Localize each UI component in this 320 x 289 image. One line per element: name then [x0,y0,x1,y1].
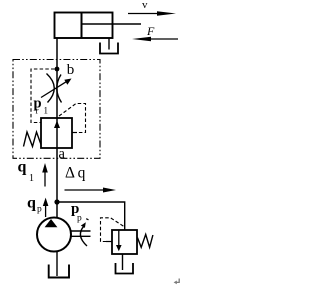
flow arrow q1 [42,163,48,187]
main supply line upper [56,38,58,119]
stray mark [86,219,88,220]
relief valve square [112,230,137,254]
main line lower [56,118,58,218]
pump rotation arrow [80,226,87,246]
relief internal arrow [116,230,122,251]
svg-text:q: q [27,195,36,212]
cylinder piston [81,13,83,39]
compensator valve square a [41,118,72,148]
svg-text:q: q [18,159,27,176]
svg-text:r: r [36,106,39,116]
flow arrow delta q [65,188,117,193]
right pilot line dashed [59,104,86,133]
throttle b arcs [47,74,55,103]
pump shaft [71,230,91,232]
cylinder body [55,13,113,39]
enclosure dash-dot box [13,60,100,159]
cylinder piston rod [82,23,141,25]
svg-text:F: F [146,24,155,38]
force arrow F [132,37,178,42]
relief outlet [122,254,124,270]
pump [37,218,71,252]
spring of valve a [24,132,42,147]
svg-text:p: p [77,214,82,224]
flow arrow qp [43,198,49,217]
pump flow triangle [45,219,58,227]
relief spring [137,234,153,247]
junction node [55,67,60,72]
cylinder drain line [108,38,110,50]
svg-text:v: v [142,0,148,11]
pilot stub on relief valve left side [106,241,112,243]
svg-text:p: p [37,205,42,215]
left pilot line dashed [31,69,55,123]
valve a flow arrow [54,121,60,129]
pilot stub on valve a right side [72,132,77,134]
pump tank [49,265,69,278]
tank under cylinder [100,43,118,54]
relief pilot dashed [101,218,125,242]
svg-text:Δq: Δq [65,165,88,182]
svg-text:1: 1 [44,106,49,116]
svg-text:1: 1 [29,173,34,184]
pump drain [56,251,58,276]
branch line to relief valve [57,202,125,230]
junction node 2 [54,199,59,204]
velocity arrow v [128,11,176,16]
svg-text:b: b [67,62,75,78]
return mark [174,279,180,285]
throttle adjust arrow [41,79,72,98]
relief tank [116,263,134,274]
svg-text:a: a [59,146,66,162]
